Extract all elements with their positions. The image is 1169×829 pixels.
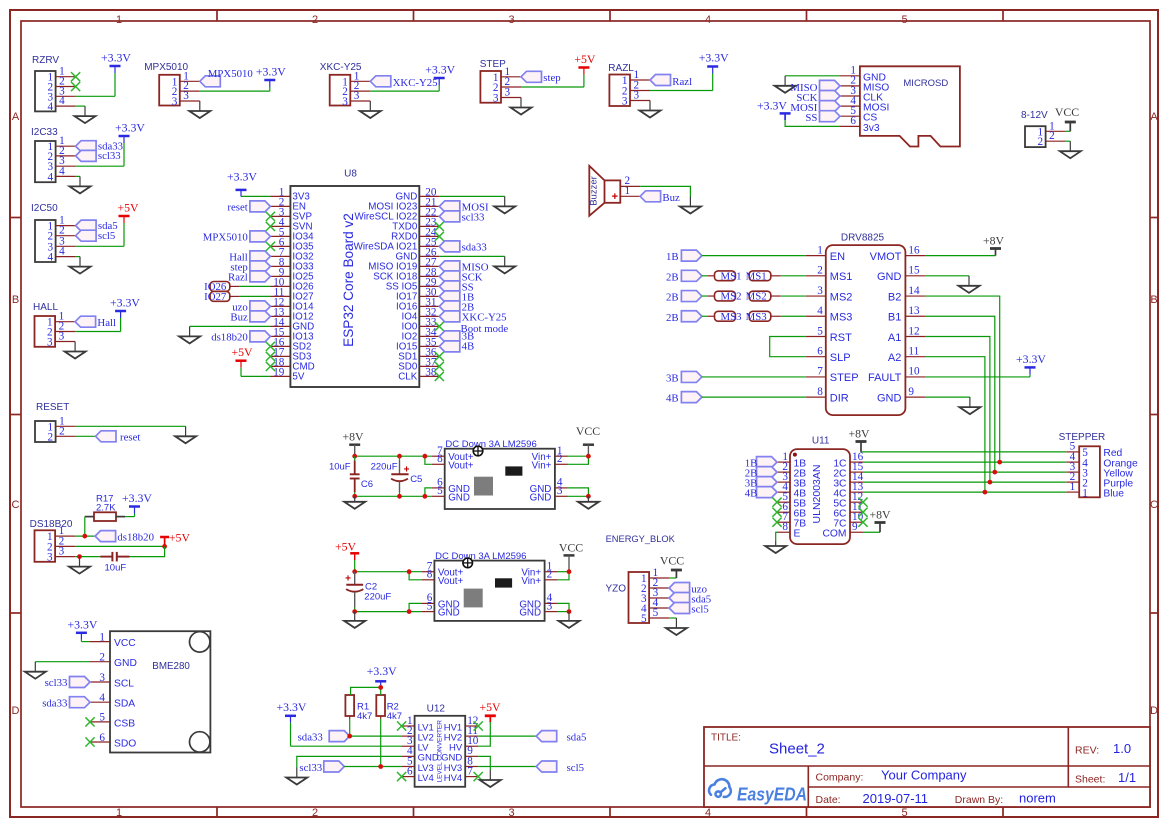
svg-text:3: 3 xyxy=(59,331,65,343)
svg-text:3: 3 xyxy=(557,485,563,497)
svg-text:MS1: MS1 xyxy=(746,270,767,282)
svg-text:8-12V: 8-12V xyxy=(1021,110,1048,121)
svg-text:3: 3 xyxy=(172,96,178,108)
svg-text:MS2: MS2 xyxy=(721,291,742,303)
svg-text:sda33: sda33 xyxy=(42,697,67,709)
svg-text:3: 3 xyxy=(634,90,640,102)
svg-text:2: 2 xyxy=(312,14,318,26)
svg-text:VCC: VCC xyxy=(1055,105,1079,119)
svg-text:I2C33: I2C33 xyxy=(31,127,58,138)
svg-text:3: 3 xyxy=(508,807,514,819)
svg-text:GND: GND xyxy=(438,608,460,619)
svg-text:8: 8 xyxy=(782,521,788,533)
svg-text:4: 4 xyxy=(59,95,65,107)
svg-text:1: 1 xyxy=(116,14,122,26)
svg-text:Buz: Buz xyxy=(230,312,248,324)
svg-text:GND: GND xyxy=(519,608,541,619)
svg-text:7: 7 xyxy=(467,765,473,777)
svg-text:12: 12 xyxy=(908,325,919,337)
svg-text:Sheet_2: Sheet_2 xyxy=(769,741,825,758)
svg-text:VCC: VCC xyxy=(576,424,600,438)
svg-text:8: 8 xyxy=(427,569,433,581)
svg-text:scl5: scl5 xyxy=(98,230,115,242)
svg-text:XKC-Y25: XKC-Y25 xyxy=(393,77,438,89)
svg-text:5: 5 xyxy=(653,607,659,619)
svg-text:3: 3 xyxy=(493,93,499,105)
svg-text:4B: 4B xyxy=(462,340,475,352)
svg-text:+3.3V: +3.3V xyxy=(757,98,787,112)
svg-text:5: 5 xyxy=(99,712,105,724)
svg-text:11: 11 xyxy=(908,346,919,358)
svg-text:2: 2 xyxy=(59,425,65,437)
svg-text:5: 5 xyxy=(901,807,907,819)
svg-text:scl5: scl5 xyxy=(567,762,584,774)
svg-text:3: 3 xyxy=(47,337,53,349)
svg-text:IO27: IO27 xyxy=(204,291,227,303)
svg-text:+3.3V: +3.3V xyxy=(227,170,257,184)
svg-text:+3.3V: +3.3V xyxy=(122,491,152,505)
svg-text:GND: GND xyxy=(114,658,137,669)
svg-text:GND: GND xyxy=(448,492,470,503)
svg-text:STEP: STEP xyxy=(480,59,506,70)
svg-text:+3.3V: +3.3V xyxy=(367,664,397,678)
svg-text:D: D xyxy=(12,705,20,717)
svg-text:5: 5 xyxy=(427,600,433,612)
svg-text:10uF: 10uF xyxy=(329,462,351,473)
svg-text:4: 4 xyxy=(48,252,54,264)
svg-text:MS3: MS3 xyxy=(721,311,742,323)
svg-text:+3.3V: +3.3V xyxy=(699,51,729,65)
svg-text:2: 2 xyxy=(48,431,54,443)
svg-text:4k7: 4k7 xyxy=(357,711,372,722)
svg-text:+3.3V: +3.3V xyxy=(256,65,286,79)
svg-text:LV4: LV4 xyxy=(418,773,434,784)
svg-text:2B: 2B xyxy=(666,312,679,324)
svg-text:2B: 2B xyxy=(666,271,679,283)
svg-text:U8: U8 xyxy=(344,169,357,180)
svg-text:Sheet:: Sheet: xyxy=(1075,774,1105,786)
svg-text:Hall: Hall xyxy=(97,317,116,329)
svg-text:2019-07-11: 2019-07-11 xyxy=(863,791,929,806)
svg-text:2: 2 xyxy=(99,652,105,664)
svg-text:4B: 4B xyxy=(745,487,758,499)
svg-text:B2: B2 xyxy=(888,291,901,303)
svg-text:ds18b20: ds18b20 xyxy=(117,531,154,543)
svg-text:sda5: sda5 xyxy=(567,731,587,743)
svg-text:I2C50: I2C50 xyxy=(31,203,58,214)
svg-text:MS1: MS1 xyxy=(721,270,742,282)
svg-text:1: 1 xyxy=(625,185,631,197)
svg-text:+8V: +8V xyxy=(983,234,1005,248)
svg-text:RZRV: RZRV xyxy=(32,55,59,66)
svg-text:MICROSD: MICROSD xyxy=(903,78,948,89)
svg-text:2B: 2B xyxy=(666,292,679,304)
svg-text:1.0: 1.0 xyxy=(1113,741,1131,756)
svg-text:4: 4 xyxy=(59,165,65,177)
svg-text:6: 6 xyxy=(407,765,413,777)
svg-text:4B: 4B xyxy=(666,393,679,405)
svg-text:U12: U12 xyxy=(427,704,446,715)
svg-text:Company:: Company: xyxy=(816,772,864,784)
svg-text:GND: GND xyxy=(877,271,902,283)
svg-text:MPX5010: MPX5010 xyxy=(208,68,253,80)
svg-text:5V: 5V xyxy=(292,371,304,382)
svg-text:B: B xyxy=(12,294,19,306)
svg-text:1: 1 xyxy=(99,631,105,643)
svg-text:A: A xyxy=(1150,111,1158,123)
svg-text:1: 1 xyxy=(116,807,122,819)
svg-text:1: 1 xyxy=(817,244,823,256)
svg-text:CSB: CSB xyxy=(114,718,135,729)
svg-text:+3.3V: +3.3V xyxy=(425,63,455,77)
svg-text:4: 4 xyxy=(817,305,823,317)
svg-text:C6: C6 xyxy=(361,479,373,490)
svg-text:DRV8825: DRV8825 xyxy=(841,233,885,244)
svg-text:+: + xyxy=(345,574,351,585)
svg-text:4: 4 xyxy=(48,171,54,183)
svg-text:STEP: STEP xyxy=(830,372,859,384)
svg-text:6: 6 xyxy=(817,346,823,358)
svg-text:Buzzer: Buzzer xyxy=(589,176,600,206)
svg-text:220uF: 220uF xyxy=(364,591,391,602)
svg-text:GND: GND xyxy=(530,492,552,503)
svg-text:3: 3 xyxy=(59,546,65,558)
svg-text:1B: 1B xyxy=(666,251,679,263)
svg-text:LEVEL CONVERTER: LEVEL CONVERTER xyxy=(437,720,444,783)
svg-text:reset: reset xyxy=(120,432,140,444)
svg-text:4: 4 xyxy=(59,246,65,258)
svg-text:3: 3 xyxy=(47,552,53,564)
svg-text:+3.3V: +3.3V xyxy=(115,121,145,135)
svg-text:FAULT: FAULT xyxy=(868,372,902,384)
svg-text:C: C xyxy=(12,499,20,511)
svg-text:ESP32 Core Board v2: ESP32 Core Board v2 xyxy=(341,213,356,347)
svg-text:VMOT: VMOT xyxy=(870,251,902,263)
svg-text:9: 9 xyxy=(852,521,858,533)
svg-text:+3.3V: +3.3V xyxy=(110,296,140,310)
svg-text:RST: RST xyxy=(830,332,852,344)
svg-text:A2: A2 xyxy=(888,352,901,364)
svg-text:VCC: VCC xyxy=(559,541,583,555)
svg-text:Razl: Razl xyxy=(228,272,248,284)
svg-text:1: 1 xyxy=(1070,481,1076,493)
svg-text:5: 5 xyxy=(817,325,823,337)
svg-text:ds18b20: ds18b20 xyxy=(211,332,248,344)
svg-text:REV:: REV: xyxy=(1075,745,1099,757)
svg-text:2: 2 xyxy=(312,807,318,819)
svg-text:D: D xyxy=(1150,705,1158,717)
svg-text:SCL: SCL xyxy=(114,679,134,690)
svg-text:Vout+: Vout+ xyxy=(438,576,464,587)
svg-text:3v3: 3v3 xyxy=(863,123,880,134)
svg-text:B1: B1 xyxy=(888,312,901,324)
svg-text:7: 7 xyxy=(817,366,823,378)
svg-text:MPX5010: MPX5010 xyxy=(203,232,248,244)
svg-text:+8V: +8V xyxy=(848,427,870,441)
svg-text:MS3: MS3 xyxy=(830,312,853,324)
svg-text:Blue: Blue xyxy=(1103,488,1124,499)
svg-text:TITLE:: TITLE: xyxy=(711,733,741,744)
svg-text:+5V: +5V xyxy=(117,201,139,215)
svg-text:STEPPER: STEPPER xyxy=(1059,432,1106,443)
svg-text:ULN2003AN: ULN2003AN xyxy=(811,465,823,524)
svg-text:15: 15 xyxy=(908,265,920,277)
svg-text:scl33: scl33 xyxy=(45,677,68,689)
svg-text:2: 2 xyxy=(817,265,823,277)
svg-text:sda33: sda33 xyxy=(298,731,323,743)
svg-text:8: 8 xyxy=(817,386,823,398)
svg-text:3: 3 xyxy=(99,672,105,684)
svg-text:MS2: MS2 xyxy=(746,291,767,303)
svg-text:E: E xyxy=(794,529,801,540)
svg-text:ENERGY_BLOK: ENERGY_BLOK xyxy=(606,534,676,544)
svg-text:Drawn By:: Drawn By: xyxy=(955,794,1003,806)
svg-text:MS2: MS2 xyxy=(830,291,853,303)
svg-text:HV4: HV4 xyxy=(444,773,462,784)
svg-text:step: step xyxy=(543,72,560,84)
svg-text:HALL: HALL xyxy=(33,302,58,313)
svg-text:3: 3 xyxy=(183,90,189,102)
svg-text:DIR: DIR xyxy=(830,392,849,404)
svg-text:10: 10 xyxy=(908,366,920,378)
svg-text:norem: norem xyxy=(1019,791,1056,806)
svg-text:2: 2 xyxy=(1049,130,1055,142)
svg-text:4k7: 4k7 xyxy=(387,711,402,722)
svg-text:C: C xyxy=(1150,499,1158,511)
svg-text:3: 3 xyxy=(622,96,628,108)
svg-text:3: 3 xyxy=(354,90,360,102)
svg-text:RESET: RESET xyxy=(36,402,69,413)
svg-text:XKC-Y25: XKC-Y25 xyxy=(462,312,507,324)
svg-text:2: 2 xyxy=(557,453,563,465)
svg-text:SDA: SDA xyxy=(114,699,135,710)
svg-text:A1: A1 xyxy=(888,332,901,344)
svg-text:+3.3V: +3.3V xyxy=(67,617,97,631)
svg-text:A: A xyxy=(12,111,20,123)
svg-text:3: 3 xyxy=(508,14,514,26)
svg-text:3: 3 xyxy=(547,600,553,612)
svg-text:3B: 3B xyxy=(666,372,679,384)
svg-text:5: 5 xyxy=(437,485,443,497)
svg-text:+5V: +5V xyxy=(574,52,596,66)
svg-text:scl33: scl33 xyxy=(299,762,322,774)
svg-text:3: 3 xyxy=(342,96,348,108)
svg-text:+5V: +5V xyxy=(335,540,357,554)
svg-text:Vout+: Vout+ xyxy=(448,460,474,471)
svg-text:SS: SS xyxy=(805,112,817,124)
svg-text:2: 2 xyxy=(547,569,553,581)
svg-text:1/1: 1/1 xyxy=(1118,770,1136,785)
svg-text:MS1: MS1 xyxy=(830,271,853,283)
svg-text:6: 6 xyxy=(850,115,856,127)
svg-text:Date:: Date: xyxy=(816,794,841,806)
svg-text:scl33: scl33 xyxy=(462,212,485,224)
svg-text:SDO: SDO xyxy=(114,739,136,750)
svg-text:9: 9 xyxy=(908,386,914,398)
svg-text:RAZL: RAZL xyxy=(608,63,634,74)
svg-text:10uF: 10uF xyxy=(105,563,127,574)
svg-text:2: 2 xyxy=(1038,136,1044,148)
svg-text:+8V: +8V xyxy=(869,508,891,522)
svg-text:13: 13 xyxy=(908,305,920,317)
svg-text:4: 4 xyxy=(99,692,105,704)
svg-text:GND: GND xyxy=(877,392,902,404)
svg-text:3: 3 xyxy=(817,285,823,297)
svg-text:Your Company: Your Company xyxy=(881,768,967,783)
svg-text:MS3: MS3 xyxy=(746,311,767,323)
svg-text:19: 19 xyxy=(273,367,285,379)
svg-text:4: 4 xyxy=(705,14,711,26)
svg-text:COM: COM xyxy=(822,529,846,540)
svg-text:Vin+: Vin+ xyxy=(532,460,552,471)
svg-text:+5V: +5V xyxy=(169,530,191,544)
svg-text:BME280: BME280 xyxy=(152,661,190,672)
svg-text:4: 4 xyxy=(705,807,711,819)
svg-text:CLK: CLK xyxy=(398,371,418,382)
svg-text:Vin+: Vin+ xyxy=(521,576,541,587)
svg-text:5: 5 xyxy=(641,613,647,625)
svg-text:+5V: +5V xyxy=(479,700,501,714)
svg-text:3: 3 xyxy=(505,87,511,99)
svg-text:EasyEDA: EasyEDA xyxy=(737,785,807,805)
svg-text:8: 8 xyxy=(437,453,443,465)
svg-text:Buz: Buz xyxy=(662,192,680,204)
svg-text:220uF: 220uF xyxy=(371,462,398,473)
svg-text:VCC: VCC xyxy=(114,638,136,649)
svg-text:reset: reset xyxy=(227,202,247,214)
svg-text:5: 5 xyxy=(901,14,907,26)
svg-text:EN: EN xyxy=(830,251,845,263)
svg-text:VCC: VCC xyxy=(660,554,684,568)
svg-text:+5V: +5V xyxy=(231,345,253,359)
svg-text:+3.3V: +3.3V xyxy=(277,700,307,714)
svg-text:scl5: scl5 xyxy=(691,604,708,616)
svg-text:6: 6 xyxy=(99,732,105,744)
svg-text:B: B xyxy=(1150,294,1157,306)
svg-text:DS18B20: DS18B20 xyxy=(30,519,73,530)
svg-text:scl33: scl33 xyxy=(98,150,121,162)
svg-text:+3.3V: +3.3V xyxy=(1016,352,1046,366)
svg-text:4: 4 xyxy=(48,101,54,113)
svg-text:U11: U11 xyxy=(812,436,830,447)
svg-text:C5: C5 xyxy=(410,474,422,485)
svg-text:Razl: Razl xyxy=(672,76,692,88)
svg-text:+: + xyxy=(404,465,410,476)
svg-text:sda33: sda33 xyxy=(462,242,487,254)
svg-text:+: + xyxy=(612,191,618,203)
svg-text:SLP: SLP xyxy=(830,352,851,364)
svg-text:MPX5010: MPX5010 xyxy=(144,62,188,73)
svg-text:1: 1 xyxy=(1082,487,1088,499)
svg-text:14: 14 xyxy=(908,285,920,297)
svg-text:16: 16 xyxy=(908,244,920,256)
svg-text:YZO: YZO xyxy=(605,584,626,595)
svg-text:+3.3V: +3.3V xyxy=(101,51,131,65)
svg-text:+8V: +8V xyxy=(342,430,364,444)
